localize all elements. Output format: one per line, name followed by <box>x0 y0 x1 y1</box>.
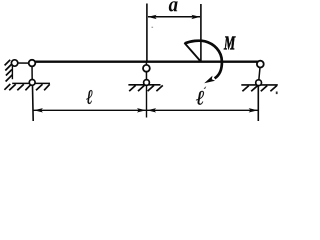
hinge circle left support bottom <box>29 80 35 86</box>
arrowhead left span right end <box>137 108 146 112</box>
moment application line <box>200 4 202 62</box>
hinge circle middle support top <box>143 65 150 72</box>
scan tick above right label l <box>204 86 207 89</box>
extension line down from middle support <box>146 86 148 118</box>
hinge circle right support bottom <box>256 80 262 86</box>
ground hatching right support <box>242 86 276 92</box>
ground line under right support <box>241 84 277 86</box>
ground line under left support <box>12 82 50 84</box>
label l left span <box>86 90 92 104</box>
arrowhead right span right end <box>249 108 258 112</box>
wall hatching left anchor <box>5 60 13 82</box>
dimension line a <box>148 16 200 18</box>
arrowhead a right <box>191 15 200 19</box>
extension line down from right support <box>257 87 259 122</box>
vertical link left support <box>31 63 33 82</box>
moment arc <box>185 41 222 79</box>
hinge circle beam left end <box>29 60 36 67</box>
hinge circle wall anchor <box>11 60 17 66</box>
arrowhead right span left end <box>147 108 156 112</box>
vertical link right support <box>259 64 261 83</box>
hinge circle middle support bottom <box>144 80 150 86</box>
ground line under middle support <box>128 84 160 86</box>
arrowhead a left <box>148 15 157 19</box>
arrowhead left span left end <box>34 108 43 112</box>
scan speck above middle extension <box>152 27 154 28</box>
extension line down from left support <box>32 86 35 121</box>
dimension line spans l and l <box>33 109 258 111</box>
wall face at left anchor <box>11 64 13 79</box>
horizontal link to wall <box>15 62 32 64</box>
moment arrowhead <box>204 76 215 84</box>
extension line up from middle support <box>146 4 148 62</box>
scan speck right edge <box>276 92 278 95</box>
label l right span <box>196 91 204 105</box>
beam <box>30 61 261 63</box>
ground hatching middle support <box>129 85 163 91</box>
label M <box>224 37 236 50</box>
vertical link middle support <box>145 62 147 83</box>
label a <box>169 1 178 11</box>
hinge circle beam right end <box>257 61 264 68</box>
moment radius line <box>184 43 201 62</box>
ground hatching left support <box>4 84 49 90</box>
